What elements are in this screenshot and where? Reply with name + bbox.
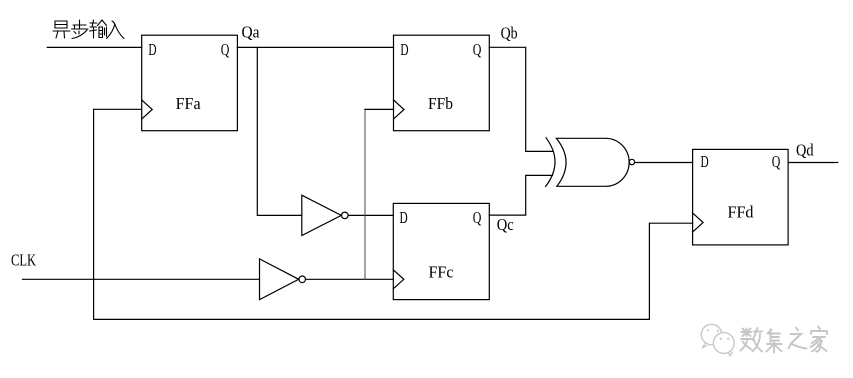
- svg-text:Q: Q: [473, 40, 482, 59]
- char 入: [107, 21, 125, 39]
- svg-text:Q: Q: [473, 208, 482, 227]
- svg-text:D: D: [400, 40, 408, 59]
- wire FFb Q to Qb corner: [489, 47, 552, 151]
- svg-text:CLK: CLK: [11, 251, 36, 270]
- wire FFa Q to FFb D: [237, 46, 393, 48]
- inverter gate INV2: [260, 259, 299, 300]
- svg-text:D: D: [148, 40, 156, 59]
- svg-text:Qd: Qd: [796, 141, 814, 160]
- char 集: [767, 330, 782, 353]
- svg-text:D: D: [701, 152, 709, 171]
- svg-text:Qb: Qb: [501, 24, 518, 43]
- FFb clock triangle: [394, 100, 405, 119]
- wire CLK input: [23, 278, 260, 280]
- XNOR gate U1 input arc: [546, 138, 555, 187]
- char 异: [53, 21, 70, 38]
- wire XNOR out to FFd D: [635, 162, 693, 164]
- svg-text:Q: Q: [772, 152, 781, 171]
- label 异步输入 (drawn strokes): [53, 20, 124, 39]
- svg-text:Q: Q: [221, 40, 230, 59]
- char 数: [741, 328, 763, 352]
- svg-text:FFb: FFb: [428, 94, 453, 113]
- wire async input to FFa D: [47, 46, 141, 48]
- wire vertical + bottom rail to FFd clock: [94, 109, 693, 319]
- char 家: [811, 327, 828, 352]
- svg-text:FFa: FFa: [176, 94, 202, 113]
- wire FFd Q out Qd: [788, 162, 838, 164]
- flip-flop FFc: [393, 203, 489, 299]
- wire INV1 out to FFc D: [348, 214, 393, 216]
- svg-text:D: D: [400, 208, 408, 227]
- XNOR gate U1 body: [556, 138, 629, 186]
- svg-text:FFd: FFd: [728, 202, 755, 221]
- char 之: [789, 328, 807, 349]
- wire branch up to FFb clock: [364, 109, 366, 279]
- wire FFa clock feed: [94, 108, 142, 110]
- FFa clock triangle: [142, 100, 153, 119]
- svg-text:FFc: FFc: [429, 263, 454, 282]
- flip-flop FFa: [142, 35, 238, 131]
- flip-flop FFd: [693, 149, 789, 245]
- svg-text:Qc: Qc: [497, 215, 514, 234]
- FFc clock triangle: [393, 270, 404, 289]
- watermark icon (two chat faces): [701, 324, 734, 356]
- wire FFc Q to XNOR lower input: [489, 175, 552, 215]
- char 步: [72, 20, 89, 39]
- FFd clock triangle: [693, 213, 704, 232]
- flip-flop FFb: [394, 35, 490, 131]
- svg-text:Qa: Qa: [242, 22, 261, 41]
- char 输: [90, 20, 107, 38]
- watermark text 数集之家 (drawn strokes): [741, 327, 828, 353]
- XNOR bubble: [629, 159, 634, 164]
- wire INV2 out to FFc clock: [306, 278, 394, 280]
- inverter gate INV1: [302, 195, 342, 235]
- wire node Qa branch down: [257, 47, 302, 215]
